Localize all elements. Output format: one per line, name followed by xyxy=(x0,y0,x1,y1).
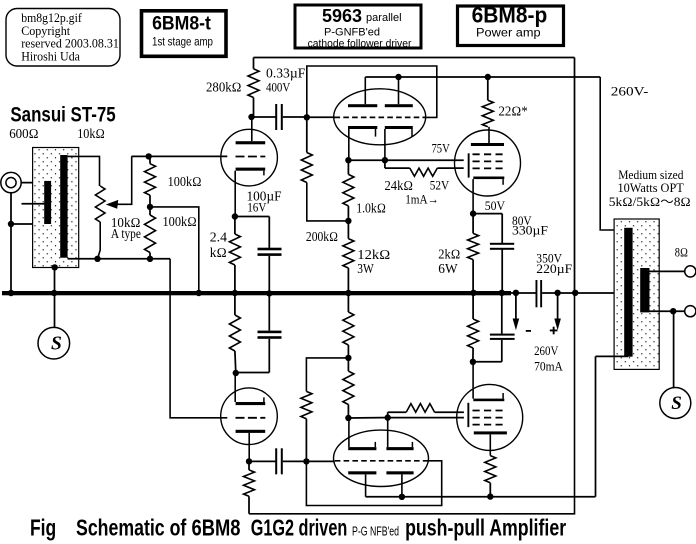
resistor 100k upper divider xyxy=(145,164,156,196)
wire T1 core to ground bus and shield S xyxy=(54,267,56,327)
node 5963 upper cathode right xyxy=(382,157,388,163)
resistor 280k plate load lower xyxy=(244,461,255,513)
triode V1 first stage upper xyxy=(221,117,278,217)
svg-text:10kΩ: 10kΩ xyxy=(77,126,105,141)
wire ground bus xyxy=(2,291,511,295)
resistor 2.4k cathode lower xyxy=(229,295,240,373)
node bus minus terminal xyxy=(513,290,519,296)
resistor 12k 3W upper xyxy=(343,221,354,292)
label Medium sized 10Watts OPT 5k/5k-8ohm xyxy=(609,168,691,209)
svg-text:70mA: 70mA xyxy=(534,360,563,374)
node bus 100uF xyxy=(266,290,272,296)
shield circle S right xyxy=(660,388,691,419)
svg-text:Schematic of: Schematic of xyxy=(76,514,186,540)
svg-text:S: S xyxy=(51,333,62,354)
label 350V 220uF xyxy=(536,251,572,275)
svg-text:Copyright: Copyright xyxy=(21,24,70,38)
svg-text:1st stage amp: 1st stage amp xyxy=(152,35,213,49)
node B+ plus terminal xyxy=(554,290,560,296)
label 2kohm 6W xyxy=(438,246,460,276)
svg-text:330µF: 330µF xyxy=(512,224,548,238)
capacitor 100uF cathode bypass lower xyxy=(236,295,282,373)
svg-text:6BM8-t: 6BM8-t xyxy=(152,13,211,35)
caption figure title xyxy=(30,514,566,540)
title 6BM8-p box (Power amp) xyxy=(458,3,564,46)
resistor 22ohm plate stopper lower xyxy=(485,456,496,497)
resistor 2k 6W cathode upper xyxy=(468,214,479,292)
svg-text:12kΩ: 12kΩ xyxy=(357,247,390,262)
node 5963 upper grid xyxy=(304,114,310,120)
resistor 200k grid leak upper xyxy=(301,117,348,221)
resistor 1.0k upper xyxy=(343,160,354,221)
node 22ohm lower to OPT xyxy=(487,493,493,499)
tube 5963 lower parallel cathode follower xyxy=(334,417,429,496)
potentiometer 10k A type xyxy=(95,186,105,222)
svg-text:Medium sized: Medium sized xyxy=(618,168,684,182)
resistor 100k lower divider xyxy=(145,215,156,253)
resistor 12k lower xyxy=(343,295,354,358)
svg-text:600Ω: 600Ω xyxy=(9,126,38,141)
svg-text:S: S xyxy=(671,393,682,414)
node 5963 lower cathode left xyxy=(345,415,351,421)
svg-text:220µF: 220µF xyxy=(536,262,572,276)
node 5963 lower cathode right xyxy=(385,414,391,420)
svg-text:P-G NFB'ed: P-G NFB'ed xyxy=(352,525,399,539)
capacitor 330uF cathode bypass lower xyxy=(473,295,515,362)
wire cathode to 6BM8 G lower xyxy=(388,417,464,419)
svg-text:kΩ: kΩ xyxy=(210,245,227,260)
shield circle S left xyxy=(38,327,70,359)
capacitor 330uF 80V cathode bypass upper xyxy=(473,214,514,292)
node 5963 upper plates xyxy=(395,74,401,80)
node pot bottom xyxy=(94,256,100,262)
wire top node to V1 grid xyxy=(132,155,228,157)
svg-text:6W: 6W xyxy=(438,261,458,276)
node 1k 12k junction lower xyxy=(345,355,351,361)
terminal 8ohm out xyxy=(685,266,696,277)
triode V1 first stage lower xyxy=(221,373,278,461)
node T1 core ground xyxy=(52,264,58,270)
svg-text:0.33µF: 0.33µF xyxy=(266,66,306,81)
node bus T1 core xyxy=(51,290,57,296)
wire 5963 plate rail to OPT top xyxy=(365,77,628,230)
wire T1 secondary top to volume pot xyxy=(68,156,100,186)
input jack connector xyxy=(1,172,21,192)
svg-text:260V-: 260V- xyxy=(611,84,649,98)
title 5963 box (parallel P-G NFB'ed cathode follower driver) xyxy=(295,5,421,50)
wire grid to 5963 lower xyxy=(306,460,334,462)
node bus 12k xyxy=(345,290,351,296)
wire grid loop upper (P-G NFB) xyxy=(307,66,437,117)
wire to shield S right xyxy=(673,311,675,388)
capacitor 0.33uF coupling lower xyxy=(249,448,306,474)
title 6BM8-t box (1st stage amp) xyxy=(142,11,227,57)
arrow minus terminal xyxy=(513,293,520,331)
node 22ohm top rail xyxy=(485,74,491,80)
svg-text:cathode follower driver: cathode follower driver xyxy=(308,38,412,50)
transformer OPT output xyxy=(614,219,659,369)
transformer T1 input 600:10k xyxy=(22,148,79,268)
copyright note box xyxy=(6,9,120,67)
svg-text:52V: 52V xyxy=(430,178,449,192)
svg-text:100kΩ: 100kΩ xyxy=(168,174,202,189)
svg-text:22Ω*: 22Ω* xyxy=(499,104,528,119)
wire jack ground drop xyxy=(11,193,45,292)
resistor 2k cathode lower xyxy=(468,295,479,362)
pentode 6BM8-p lower power tube xyxy=(457,362,523,456)
svg-text:200kΩ: 200kΩ xyxy=(306,229,338,244)
label 0.33uF 400V xyxy=(266,66,306,95)
node jack-primary junction xyxy=(8,221,14,227)
svg-text:6BM8: 6BM8 xyxy=(192,514,241,540)
svg-text:P-GNFB'ed: P-GNFB'ed xyxy=(324,27,380,39)
wire cathode to 6BM8 G upper xyxy=(385,159,464,161)
svg-text:10Watts OPT: 10Watts OPT xyxy=(618,181,685,195)
node speaker return xyxy=(670,308,676,314)
label plus xyxy=(550,330,558,332)
label 2.4kohm xyxy=(210,230,227,260)
resistor 22ohm plate stopper upper xyxy=(482,77,493,127)
tube 5963 upper parallel cathode follower xyxy=(334,77,426,160)
wire grid to 5963 upper xyxy=(307,116,335,118)
svg-text:8Ω: 8Ω xyxy=(675,246,688,260)
wire OPT secondary bottom xyxy=(650,310,685,312)
wire cathodes join lower xyxy=(348,417,387,419)
svg-text:5kΩ/5kΩ〜8Ω: 5kΩ/5kΩ〜8Ω xyxy=(609,195,691,209)
svg-text:50V: 50V xyxy=(485,199,505,213)
svg-text:G1G2 driven: G1G2 driven xyxy=(251,514,348,540)
svg-text:1.0kΩ: 1.0kΩ xyxy=(356,201,386,216)
node 5963 lower plates xyxy=(399,494,405,500)
node 5963 lower grid xyxy=(303,458,309,464)
svg-text:Hiroshi Uda: Hiroshi Uda xyxy=(21,50,80,64)
label 260V 70mA xyxy=(534,344,563,373)
svg-text:Power amp: Power amp xyxy=(476,26,541,39)
label 10kohm A type xyxy=(111,215,141,241)
wire B+ lower drop xyxy=(249,293,575,514)
pentode 6BM8-p upper power tube xyxy=(455,127,521,214)
label 12kohm 3W xyxy=(357,247,390,276)
label 100uF 16V xyxy=(247,189,282,215)
svg-text:16V: 16V xyxy=(247,200,266,214)
resistor 280k plate load xyxy=(248,58,259,118)
node divider bottom xyxy=(147,256,153,262)
capacitor 100uF 16V cathode bypass upper xyxy=(235,217,282,293)
wire 5963 lower plate rail xyxy=(366,496,596,498)
resistor 2.4k cathode upper xyxy=(229,217,240,293)
node bus divider mid xyxy=(196,290,202,296)
resistor 24k G2 feed lower xyxy=(388,404,464,418)
svg-text:2.4: 2.4 xyxy=(210,230,227,245)
wire bus to PSU cap xyxy=(511,292,536,294)
node V1 lower plate xyxy=(246,458,252,464)
wire B+ to OPT center tap xyxy=(542,292,638,294)
svg-text:280kΩ: 280kΩ xyxy=(206,79,242,94)
svg-text:400V: 400V xyxy=(266,80,291,94)
svg-text:1mA→: 1mA→ xyxy=(405,192,439,207)
svg-text:260V: 260V xyxy=(534,344,558,358)
svg-text:Sansui ST-75: Sansui ST-75 xyxy=(10,104,116,127)
wire OPT primary bottom to lower plate xyxy=(596,356,629,496)
node cathode lower xyxy=(470,359,476,365)
wire jack to T1 primary top xyxy=(21,182,45,184)
node 5963 upper cathode left xyxy=(345,157,351,163)
label minus xyxy=(526,330,531,332)
wire divider mid to ground xyxy=(150,207,199,292)
resistor 1.0k lower xyxy=(343,358,354,418)
node V1 cathode xyxy=(232,213,238,219)
svg-text:100kΩ: 100kΩ xyxy=(163,214,197,229)
label 80V 330uF xyxy=(512,214,548,238)
terminal speaker return xyxy=(685,306,696,317)
node bus 2k xyxy=(470,290,476,296)
resistor 200k grid leak lower xyxy=(301,358,349,462)
arrow plus terminal xyxy=(554,293,561,331)
wire bottom node to lower grid feed xyxy=(68,259,228,418)
wire B+ right drop xyxy=(574,58,576,293)
node bus 330uF xyxy=(499,290,505,296)
node divider mid xyxy=(147,204,153,210)
svg-text:75V: 75V xyxy=(432,141,450,155)
svg-text:push-pull Amplifier: push-pull Amplifier xyxy=(405,514,566,540)
wire grid loop lower xyxy=(306,461,441,506)
resistor 24k G2 feed upper xyxy=(385,160,464,176)
node B+ rail xyxy=(572,290,578,296)
node V1 plate xyxy=(248,114,254,120)
node bus jack ground xyxy=(8,290,14,296)
node bus 2.4k xyxy=(232,290,238,296)
node pot top wire / divider top xyxy=(146,153,152,159)
wire pot bottom xyxy=(98,222,101,259)
svg-text:A type: A type xyxy=(111,226,141,241)
node V1 lower cathode xyxy=(233,370,239,376)
node 50V cathode upper xyxy=(470,210,476,216)
capacitor 0.33uF coupling upper xyxy=(252,104,307,130)
pot wiper arrow xyxy=(106,156,132,208)
svg-text:2kΩ: 2kΩ xyxy=(438,246,460,261)
capacitor 220uF 350V power supply xyxy=(536,280,543,307)
wire OPT secondary top to 8ohm terminal xyxy=(650,270,685,272)
wire B+ top rail xyxy=(254,57,575,59)
svg-text:3W: 3W xyxy=(357,261,374,276)
svg-text:Fig: Fig xyxy=(30,514,56,540)
node 1k 12k junction upper xyxy=(345,218,351,224)
wire cathodes join upper xyxy=(348,159,385,161)
svg-text:6BM8-p: 6BM8-p xyxy=(472,3,548,28)
